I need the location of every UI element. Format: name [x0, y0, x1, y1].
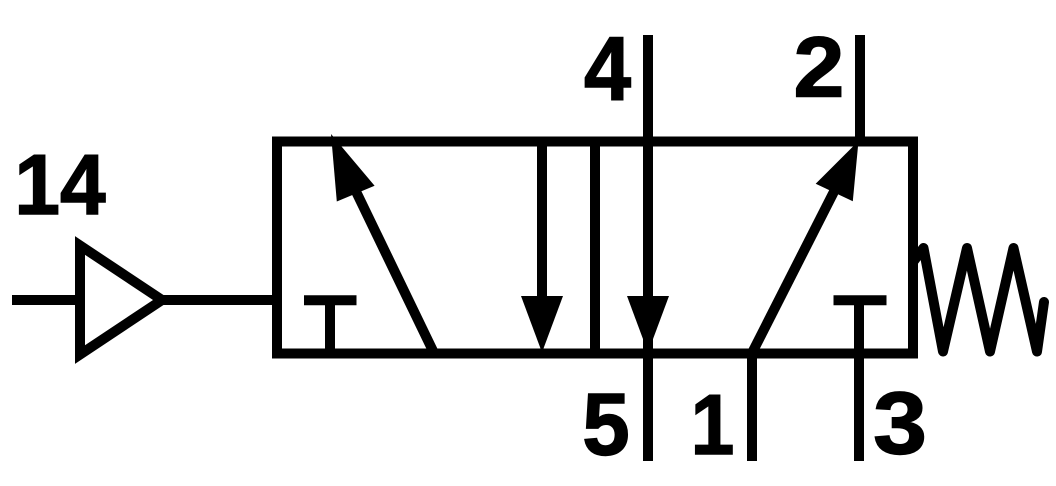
right chamber: down arrowhead (4 to 5 flow): [627, 296, 669, 353]
left chamber: down arrow shaft (2 to 3 path): [537, 142, 547, 303]
valve body outline (5/2-way valve): [277, 142, 913, 354]
wire: pilot output to valve body: [162, 295, 277, 305]
left chamber: down arrowhead: [521, 296, 563, 353]
port 2 line: [855, 35, 865, 142]
svg-text:3: 3: [873, 374, 927, 473]
left chamber: flow arrow shaft (1 to 4 path): [349, 177, 434, 353]
pilot actuator triangle U1 (pneumatic pilot, port 14): [80, 246, 162, 355]
svg-text:2: 2: [794, 19, 845, 115]
right chamber: through-flow line port 4 to port 5: [643, 35, 653, 461]
right chamber: flow arrow shaft (1 to 2 path): [752, 168, 846, 353]
left chamber: flow arrowhead: [331, 134, 375, 202]
valve position divider: [590, 142, 600, 354]
port 1 supply line: [747, 350, 757, 461]
svg-text:4: 4: [584, 18, 631, 119]
right chamber: blocked port 3 T bar: [834, 295, 887, 305]
svg-text:1: 1: [691, 378, 735, 473]
left chamber: blocked port T stem: [325, 300, 335, 353]
port 3 exhaust line: [854, 300, 864, 461]
wire: pilot supply line to port 14: [12, 295, 81, 305]
svg-text:5: 5: [582, 376, 629, 473]
left chamber: blocked port T bar: [304, 295, 357, 305]
return spring: [913, 248, 1044, 352]
svg-text:14: 14: [14, 136, 106, 232]
right chamber: flow arrowhead (1 to 2): [816, 141, 859, 201]
